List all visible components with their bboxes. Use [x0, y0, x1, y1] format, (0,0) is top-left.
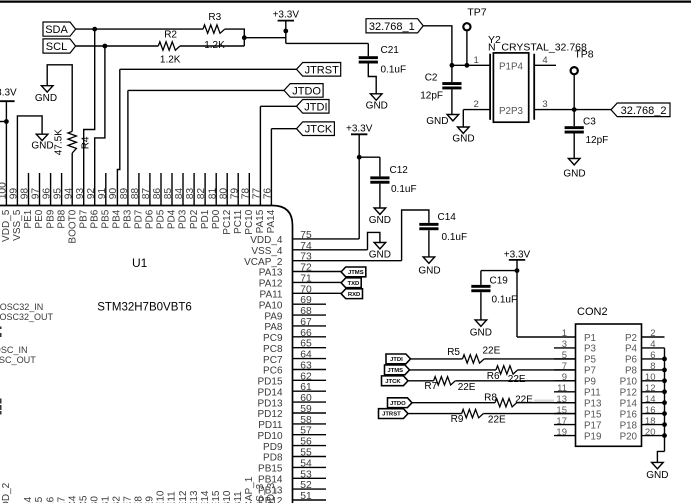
svg-text:79: 79 — [229, 188, 240, 200]
wire GND to R4 — [47, 65, 72, 132]
net label JTDO — [284, 84, 323, 98]
CON2 pin names right column — [620, 333, 638, 443]
svg-text:PD13: PD13 — [257, 398, 282, 409]
wire C2 to GND — [451, 89, 453, 114]
svg-text:JTDO: JTDO — [292, 85, 321, 97]
svg-text:PB2: PB2 — [112, 496, 123, 503]
ground CON2 — [646, 462, 668, 480]
svg-text:P18: P18 — [620, 420, 638, 431]
svg-text:62: 62 — [300, 371, 312, 382]
svg-text:22E: 22E — [483, 345, 501, 356]
svg-text:1: 1 — [474, 55, 479, 66]
wire CON2 even pins bus — [664, 348, 666, 452]
svg-text:95: 95 — [53, 188, 64, 200]
svg-text:+3.3V: +3.3V — [346, 123, 373, 134]
ground C12 — [369, 208, 391, 226]
svg-text:P2: P2 — [625, 333, 637, 344]
svg-text:P11: P11 — [584, 388, 601, 399]
svg-text:JTCK: JTCK — [305, 124, 333, 136]
CON2 left pin numbers — [556, 328, 567, 438]
svg-text:PE12: PE12 — [178, 490, 189, 503]
junction XTAL2 — [572, 107, 577, 112]
U1 value STM32H7B0VBT6 — [97, 301, 192, 313]
wire bus to GND — [657, 451, 664, 462]
ground C3 — [563, 159, 585, 180]
svg-text:+3.3V: +3.3V — [273, 9, 300, 20]
svg-text:R2: R2 — [164, 29, 177, 40]
U1 reference — [132, 256, 148, 270]
svg-text:0.1uF: 0.1uF — [492, 295, 518, 306]
svg-text:100: 100 — [0, 182, 9, 199]
svg-text:C3: C3 — [583, 117, 596, 128]
svg-text:2: 2 — [650, 328, 655, 339]
svg-text:JTMS: JTMS — [387, 368, 403, 374]
svg-text:C12: C12 — [390, 165, 409, 176]
power +3.3V pullups — [273, 9, 300, 43]
svg-text:PC10: PC10 — [244, 209, 255, 234]
svg-text:PB3: PB3 — [123, 209, 134, 228]
svg-text:+3.3V: +3.3V — [504, 250, 531, 261]
wire C14 to GND — [428, 230, 430, 257]
wire 32.768_1 to crystal pin1 — [423, 26, 490, 66]
svg-text:PE1: PE1 — [23, 209, 34, 228]
junction +3.3V C19 — [515, 268, 520, 273]
svg-text:PE8: PE8 — [134, 496, 145, 503]
svg-text:68: 68 — [300, 306, 312, 317]
crystal pin 1 — [474, 55, 479, 66]
CON2 pin names left column — [584, 333, 602, 443]
net label JTDI — [297, 100, 330, 114]
net tag JTMS (PA13) — [341, 267, 366, 277]
svg-text:56: 56 — [300, 437, 312, 448]
wire C12 to GND — [379, 184, 381, 208]
crystal Y2 — [488, 34, 587, 122]
U1 left pin name OSC32_IN — [0, 302, 43, 312]
svg-text:PA14: PA14 — [266, 209, 277, 233]
svg-text:SCL: SCL — [46, 41, 67, 53]
svg-text:57: 57 — [300, 426, 312, 437]
svg-text:0.1uF: 0.1uF — [391, 184, 417, 195]
svg-text:P13: P13 — [584, 399, 602, 410]
svg-text:P14: P14 — [620, 399, 638, 410]
junction SCL — [103, 44, 108, 49]
svg-text:PC11: PC11 — [233, 209, 244, 234]
svg-text:PD2: PD2 — [189, 209, 200, 229]
svg-text:R4: R4 — [81, 136, 92, 149]
svg-text:C21: C21 — [381, 45, 400, 56]
svg-text:0.1uF: 0.1uF — [381, 65, 407, 76]
svg-text:P17: P17 — [584, 420, 601, 431]
svg-text:C19: C19 — [490, 275, 509, 286]
svg-text:20: 20 — [645, 427, 656, 438]
svg-text:GND: GND — [366, 101, 388, 112]
svg-text:76: 76 — [263, 188, 274, 200]
connector CON2 body — [576, 306, 642, 446]
svg-text:93: 93 — [75, 188, 86, 200]
svg-text:69: 69 — [300, 295, 312, 306]
svg-text:PB4: PB4 — [112, 209, 123, 228]
svg-text:OSC32_OUT: OSC32_OUT — [0, 312, 53, 322]
svg-text:98: 98 — [20, 188, 31, 200]
svg-text:81: 81 — [207, 188, 218, 200]
svg-text:JTDO: JTDO — [390, 401, 406, 407]
svg-text:BOOT0: BOOT0 — [67, 209, 78, 243]
ground VSS_4 — [369, 243, 391, 261]
svg-text:PC7: PC7 — [263, 355, 283, 366]
svg-text:GND: GND — [426, 116, 448, 127]
wire C3 to GND — [573, 134, 575, 159]
wire PA13 to JTMS tag — [293, 271, 342, 273]
svg-text:VCAP_2: VCAP_2 — [244, 257, 283, 268]
svg-text:PB11: PB11 — [233, 491, 244, 503]
svg-text:PA6: PA6 — [45, 496, 56, 503]
net label SDA — [43, 22, 76, 36]
resistor R7 JTCK net — [382, 376, 576, 393]
svg-text:PE0: PE0 — [34, 209, 45, 228]
svg-text:P12: P12 — [620, 388, 637, 399]
net label SCL — [43, 39, 76, 53]
svg-text:PB0: PB0 — [89, 496, 100, 503]
svg-text:3: 3 — [542, 99, 547, 110]
svg-text:PD0: PD0 — [211, 209, 222, 229]
svg-text:14: 14 — [645, 394, 656, 405]
svg-text:PB12: PB12 — [258, 496, 283, 503]
svg-text:4: 4 — [650, 339, 655, 350]
power +3.3V C12 — [346, 123, 373, 157]
svg-text:22E: 22E — [515, 395, 533, 406]
wire PA12 to TXD tag — [293, 281, 342, 283]
svg-text:PE13: PE13 — [189, 490, 200, 503]
svg-text:PB13: PB13 — [258, 485, 283, 496]
svg-text:84: 84 — [174, 188, 185, 200]
resistor R5 JTDI net — [386, 345, 576, 363]
svg-text:PB9: PB9 — [45, 209, 56, 228]
svg-text:PA9: PA9 — [264, 311, 283, 322]
svg-text:PD14: PD14 — [257, 387, 282, 398]
capacitor C12 — [370, 165, 416, 195]
svg-text:1.2K: 1.2K — [160, 55, 181, 66]
svg-text:99: 99 — [9, 188, 20, 200]
svg-text:96: 96 — [42, 188, 53, 200]
svg-text:GND: GND — [563, 169, 585, 180]
svg-text:TP8: TP8 — [574, 48, 593, 60]
svg-text:82: 82 — [196, 188, 207, 200]
svg-text:P10: P10 — [620, 377, 638, 388]
wire JTRST to pin 90 — [117, 69, 296, 205]
wire VSS_4 to GND — [293, 232, 380, 249]
svg-text:PD3: PD3 — [178, 209, 189, 229]
svg-text:P7: P7 — [584, 366, 596, 377]
wire pullups to +3.3V — [244, 37, 285, 39]
crystal pin 2 — [463, 99, 490, 110]
svg-text:55: 55 — [300, 448, 312, 459]
svg-text:SDA: SDA — [45, 24, 68, 36]
resistor R9 JTRST net — [379, 409, 576, 426]
left edge text fragments — [0, 327, 2, 415]
svg-text:92: 92 — [86, 188, 97, 200]
svg-text:88: 88 — [130, 188, 141, 200]
svg-text:PD4: PD4 — [167, 209, 178, 229]
faint artifact streak — [534, 400, 554, 403]
svg-text:P2P3: P2P3 — [499, 106, 524, 117]
svg-text:PC5: PC5 — [78, 495, 89, 503]
svg-text:PD7: PD7 — [134, 209, 145, 229]
svg-text:PE15: PE15 — [211, 490, 222, 503]
svg-text:GND: GND — [35, 93, 57, 104]
svg-text:JTDI: JTDI — [390, 357, 403, 363]
svg-text:JTRST: JTRST — [305, 64, 340, 76]
resistor R6 JTMS net — [385, 365, 576, 385]
svg-text:PA13: PA13 — [259, 268, 283, 279]
CON2 right pin stubs — [642, 337, 665, 436]
net label JTCK — [297, 122, 335, 136]
power +3.3V VDD_5 — [0, 87, 17, 205]
resistor R3 — [203, 12, 225, 51]
svg-text:12: 12 — [645, 383, 656, 394]
resistor R8 JTDO net — [388, 392, 576, 407]
net tag RXD (PA11) — [341, 289, 362, 299]
svg-text:22E: 22E — [488, 415, 506, 426]
svg-text:94: 94 — [64, 188, 75, 200]
svg-text:PA5: PA5 — [34, 496, 45, 503]
svg-text:63: 63 — [300, 361, 312, 372]
wire VSS_5 to GND — [17, 116, 42, 206]
svg-text:PA8: PA8 — [264, 322, 283, 333]
svg-text:P5: P5 — [584, 355, 597, 366]
svg-text:90: 90 — [108, 188, 119, 200]
crystal pin 4 — [534, 55, 556, 66]
wire to C19 — [481, 271, 517, 285]
svg-text:VSS_4: VSS_4 — [251, 246, 283, 257]
svg-text:8: 8 — [650, 361, 655, 372]
svg-text:PC4: PC4 — [67, 495, 78, 503]
svg-text:PB1: PB1 — [101, 496, 112, 503]
svg-text:+3.3V: +3.3V — [0, 87, 17, 98]
wire SDA to R3 — [76, 28, 203, 30]
svg-text:TXD: TXD — [348, 281, 360, 287]
svg-text:N_CRYSTAL_32.768: N_CRYSTAL_32.768 — [488, 42, 587, 54]
svg-text:60: 60 — [300, 393, 312, 404]
junction XTAL1 b — [465, 63, 470, 68]
svg-text:PB5: PB5 — [101, 209, 112, 228]
svg-text:32.768_1: 32.768_1 — [369, 21, 415, 33]
svg-text:PE14: PE14 — [200, 490, 211, 503]
capacitor C14 — [419, 212, 467, 243]
svg-text:VDD_4: VDD_4 — [250, 235, 283, 246]
svg-text:91: 91 — [97, 188, 108, 200]
wire C21 to GND — [368, 64, 376, 94]
svg-text:12pF: 12pF — [586, 135, 609, 146]
testpoint TP8 — [571, 48, 594, 109]
svg-text:R9: R9 — [451, 414, 464, 425]
svg-text:78: 78 — [240, 188, 251, 200]
capacitor C2 — [420, 65, 461, 101]
svg-text:P8: P8 — [625, 366, 638, 377]
svg-text:TP7: TP7 — [467, 6, 486, 18]
ground VSS_5 — [31, 134, 53, 151]
svg-text:P1: P1 — [584, 333, 596, 344]
junctions CON2 bus — [662, 357, 667, 439]
wire crystal pin2 to GND — [462, 110, 464, 127]
svg-text:61: 61 — [300, 382, 312, 393]
U1 right pin stubs (unconnected) — [293, 304, 327, 500]
svg-text:P1P4: P1P4 — [499, 62, 524, 73]
ground BOOT0 pulldown — [35, 86, 57, 104]
U1 right pin names — [244, 235, 283, 503]
svg-text:VCAP_1: VCAP_1 — [244, 476, 255, 503]
svg-text:VSS_5: VSS_5 — [12, 209, 23, 241]
svg-text:52: 52 — [300, 480, 312, 491]
svg-text:JTDI: JTDI — [304, 101, 327, 113]
svg-text:PB10: PB10 — [222, 490, 233, 503]
svg-text:1: 1 — [562, 328, 567, 339]
svg-text:16: 16 — [645, 405, 656, 416]
svg-text:PA11: PA11 — [260, 290, 283, 301]
svg-text:GND: GND — [369, 215, 391, 226]
svg-text:PA10: PA10 — [259, 300, 283, 311]
junction VDD_5 — [0, 119, 9, 124]
svg-text:P6: P6 — [625, 355, 638, 366]
svg-text:P20: P20 — [620, 431, 638, 442]
svg-text:3: 3 — [562, 339, 567, 350]
svg-text:97: 97 — [31, 188, 42, 200]
svg-text:86: 86 — [152, 188, 163, 200]
svg-text:10: 10 — [645, 372, 656, 383]
capacitor C21 — [359, 43, 406, 75]
svg-text:80: 80 — [218, 188, 229, 200]
wire R3 out — [225, 29, 245, 46]
svg-text:0.1uF: 0.1uF — [442, 232, 468, 243]
U1 left pin name OSC_OUT — [0, 355, 36, 365]
svg-text:54: 54 — [300, 458, 312, 469]
svg-text:RXD: RXD — [348, 292, 360, 298]
svg-text:2: 2 — [474, 99, 479, 110]
junction XTAL1 a — [450, 63, 455, 68]
svg-text:6: 6 — [650, 350, 655, 361]
CON2 right pin numbers — [645, 328, 656, 438]
U1 right pin numbers 75-51 — [300, 230, 312, 502]
ground C14 — [418, 257, 440, 277]
svg-text:GND: GND — [369, 250, 391, 261]
svg-text:P3: P3 — [584, 344, 597, 355]
svg-text:PA7: PA7 — [56, 496, 67, 503]
svg-text:65: 65 — [300, 339, 312, 350]
wire R2 out — [180, 45, 244, 47]
svg-text:STM32H7B0VBT6: STM32H7B0VBT6 — [97, 301, 192, 313]
wire SCL to R2 — [76, 45, 159, 47]
wire SCL drop to pin 92 — [95, 46, 105, 206]
svg-text:P9: P9 — [584, 377, 596, 388]
U1 top pin stubs (unconnected) — [29, 173, 250, 206]
svg-text:PE7: PE7 — [123, 496, 134, 503]
wire VDD_4 to +3.3V — [293, 157, 360, 239]
junction +3.3V — [283, 29, 288, 34]
svg-text:PD10: PD10 — [257, 431, 282, 442]
net tag TXD (PA12) — [341, 278, 361, 288]
svg-text:PC12: PC12 — [222, 209, 233, 234]
resistor R4 47.5K — [54, 129, 92, 155]
svg-text:83: 83 — [185, 188, 196, 200]
capacitor C3 — [565, 110, 609, 147]
wire SDA drop to pin 93 — [84, 29, 95, 205]
svg-text:58: 58 — [300, 415, 312, 426]
svg-text:PB15: PB15 — [258, 464, 283, 475]
svg-text:P19: P19 — [584, 431, 601, 442]
svg-text:PC8: PC8 — [263, 344, 283, 355]
svg-text:PB8: PB8 — [56, 209, 67, 228]
svg-text:47.5K: 47.5K — [54, 129, 65, 155]
svg-text:GND: GND — [646, 470, 668, 481]
svg-text:PB14: PB14 — [258, 475, 283, 486]
svg-text:PC9: PC9 — [263, 333, 283, 344]
wire +3.3V rail to C21 — [286, 42, 369, 44]
ground crystal pin2 — [452, 127, 474, 145]
svg-text:U1: U1 — [132, 256, 148, 270]
svg-text:PA15: PA15 — [255, 209, 266, 233]
U1 left pin name OSC_IN — [0, 345, 28, 355]
svg-text:C2: C2 — [425, 73, 438, 84]
svg-text:89: 89 — [119, 188, 130, 200]
junction SDA — [92, 27, 97, 32]
wire +3.3V down to CON2 pin1 — [517, 271, 576, 337]
wire C19 to GND — [480, 292, 482, 320]
U1 left pin name OSC32_OUT — [0, 312, 53, 322]
svg-text:PD9: PD9 — [263, 442, 283, 453]
svg-text:4: 4 — [542, 55, 547, 66]
svg-text:64: 64 — [300, 350, 312, 361]
svg-text:OSC_IN: OSC_IN — [0, 345, 28, 355]
svg-text:R3: R3 — [208, 12, 221, 23]
testpoint TP7 — [463, 6, 486, 65]
ground C19 — [470, 320, 492, 338]
crystal pin 3 — [534, 99, 611, 110]
svg-text:PA12: PA12 — [259, 279, 283, 290]
svg-text:PB7: PB7 — [78, 209, 89, 228]
svg-text:18: 18 — [645, 416, 656, 427]
svg-text:PD15: PD15 — [257, 377, 282, 388]
svg-text:32.768_2: 32.768_2 — [621, 105, 667, 117]
svg-text:PE10: PE10 — [156, 490, 167, 503]
wire JTDO to pin 89 — [128, 90, 284, 205]
svg-text:53: 53 — [300, 469, 312, 480]
ground C2 — [426, 115, 458, 128]
svg-text:GND: GND — [418, 266, 440, 277]
svg-text:OSC32_IN: OSC32_IN — [0, 302, 43, 312]
net label 32.768_2 — [611, 103, 670, 117]
svg-text:PB6: PB6 — [89, 209, 100, 228]
wire R4 to BOOT0 pin 94 — [71, 153, 73, 205]
svg-text:77: 77 — [251, 188, 262, 200]
svg-text:VDD_2: VDD_2 — [1, 482, 12, 503]
net label JTRST — [297, 63, 341, 77]
svg-text:11: 11 — [557, 383, 567, 394]
svg-text:67: 67 — [300, 317, 312, 328]
resistor R2 — [158, 29, 181, 65]
svg-text:GND: GND — [31, 141, 53, 152]
svg-text:87: 87 — [141, 188, 152, 200]
svg-text:C14: C14 — [438, 212, 457, 223]
power +3.3V CON2 — [504, 250, 531, 271]
svg-text:22E: 22E — [508, 374, 526, 385]
svg-text:PC6: PC6 — [263, 366, 283, 377]
wire JTDI to pin 77 — [260, 106, 296, 205]
svg-text:R5: R5 — [447, 347, 460, 358]
CON2 left pin stubs — [554, 348, 576, 436]
svg-text:PD12: PD12 — [257, 409, 282, 420]
svg-text:22E: 22E — [458, 382, 476, 393]
svg-text:PD11: PD11 — [258, 420, 283, 431]
svg-text:66: 66 — [300, 328, 312, 339]
